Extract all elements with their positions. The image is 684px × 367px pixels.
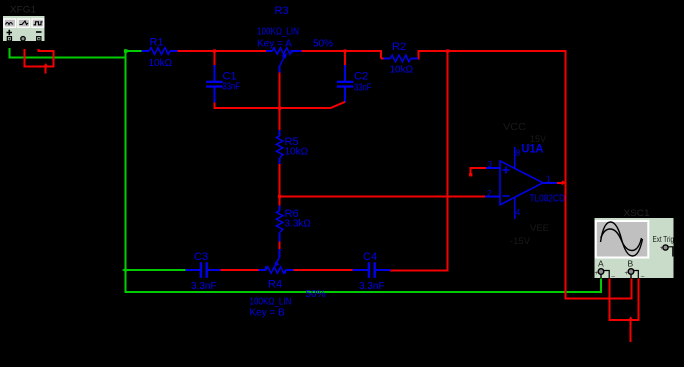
svg-text:33nF: 33nF [354, 83, 372, 94]
capacitor C4 [353, 251, 391, 292]
svg-text:33nF: 33nF [223, 82, 241, 93]
svg-text:Key = B: Key = B [250, 308, 286, 319]
wire green vertical trunk [125, 50, 602, 292]
wire green from XFG1 plus terminal [8, 48, 125, 58]
svg-text:R4: R4 [268, 279, 282, 291]
wire red XFG1 common to minus loop [23, 49, 54, 74]
junction arrow red up scope [628, 316, 633, 320]
resistor R5 [276, 130, 308, 165]
node junction red inverting node [278, 195, 281, 198]
svg-text:2: 2 [487, 189, 492, 198]
wire green scope A plus [600, 279, 602, 294]
svg-text:+: + [625, 271, 629, 277]
svg-text:3.3nF: 3.3nF [359, 281, 385, 292]
wire red C3 to R4 [220, 269, 259, 271]
svg-text:Key = A: Key = A [257, 39, 292, 50]
function generator XFG1 [3, 5, 46, 49]
svg-text:B: B [628, 259, 634, 269]
resistor R2 [384, 41, 418, 76]
wire red inverting input [279, 196, 485, 198]
wire red R4 to C4 [294, 269, 354, 271]
wire red R5 to R6 [279, 164, 281, 207]
svg-text:TL082CD: TL082CD [530, 193, 566, 205]
wire red R6 to R4 wiper [279, 242, 281, 250]
svg-text:C4: C4 [363, 251, 377, 263]
svg-text:15V: 15V [530, 134, 546, 144]
svg-text:50%: 50% [313, 39, 333, 50]
svg-text:XFG1: XFG1 [10, 5, 36, 15]
wire red mid column R3 wiper to R5 [279, 72, 281, 131]
wire red feedback vertical [390, 51, 449, 271]
svg-text:10kΩ: 10kΩ [390, 65, 414, 76]
node junction red C2 top [343, 49, 346, 52]
svg-text:C2: C2 [354, 71, 368, 83]
wire red output [557, 51, 633, 300]
node junction red feedback [446, 49, 449, 52]
junction arrow red up [43, 63, 48, 67]
resistor R6 [276, 206, 311, 243]
oscilloscope XSC1 [594, 208, 674, 279]
capacitor C2 [337, 51, 372, 103]
svg-text:VCC: VCC [503, 122, 526, 133]
wire red top main [178, 50, 567, 58]
wire red noninverting stub [471, 167, 486, 174]
svg-text:50%: 50% [306, 289, 326, 300]
svg-text:3.3kΩ: 3.3kΩ [285, 219, 312, 230]
svg-text:+: + [660, 246, 664, 252]
potentiometer R4 [250, 249, 326, 319]
svg-text:_: _ [640, 272, 645, 278]
node junction red C1 top [213, 49, 216, 52]
node junction red mid column [278, 107, 281, 110]
potentiometer R3 [257, 5, 333, 73]
junction arrow green left [122, 267, 127, 272]
wire red scope A minus [608, 279, 639, 343]
wire red C1 C2 bottom [215, 107, 331, 109]
svg-text:-15V: -15V [510, 236, 531, 247]
capacitor C1 [206, 51, 240, 109]
svg-text:R3: R3 [275, 5, 289, 17]
svg-text:A: A [598, 259, 604, 269]
svg-text:+: + [595, 271, 599, 277]
resistor R1 [141, 37, 177, 70]
svg-text:XSC1: XSC1 [624, 208, 650, 218]
capacitor C3 [186, 251, 222, 292]
svg-text:3: 3 [488, 160, 493, 169]
junction arrow red right [562, 180, 566, 185]
svg-text:3.3nF: 3.3nF [191, 281, 217, 292]
op-amp U1A [485, 122, 565, 247]
svg-text:10kΩ: 10kΩ [285, 147, 309, 158]
node junction green at R1 [124, 49, 128, 53]
svg-text:1: 1 [546, 175, 551, 184]
svg-text:10kΩ: 10kΩ [149, 58, 173, 69]
svg-text:R1: R1 [150, 37, 164, 49]
svg-text:R2: R2 [392, 41, 406, 53]
svg-text:C3: C3 [194, 251, 208, 263]
svg-text:4: 4 [516, 208, 521, 217]
wire red scope B plus [631, 279, 633, 300]
svg-text:VEE: VEE [530, 223, 549, 234]
svg-text:Ext Trig: Ext Trig [653, 234, 675, 244]
svg-text:8: 8 [516, 149, 521, 158]
svg-text:_: _ [611, 272, 616, 278]
svg-text:100KΩ_LIN: 100KΩ_LIN [257, 27, 299, 38]
svg-text:100KΩ_LIN: 100KΩ_LIN [250, 297, 292, 308]
wire red diagonal to C2 [330, 102, 345, 108]
